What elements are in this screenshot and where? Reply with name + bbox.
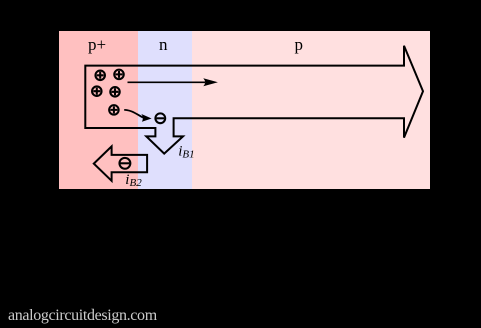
recombination curved arrow — [124, 110, 151, 122]
electron symbol ⊖ at iB1 — [155, 113, 165, 123]
watermark — [8, 307, 157, 325]
svg-text:n: n — [159, 35, 168, 54]
iB2 left arrow outline — [94, 146, 147, 180]
electron symbol ⊖ in iB2 arrow — [119, 158, 130, 169]
svg-text:p+: p+ — [88, 35, 106, 54]
hole symbol ⊕ 5 — [109, 105, 119, 115]
p+ emitter region band — [59, 31, 138, 189]
hole symbol ⊕ 2 — [114, 70, 124, 80]
semiconductor cross-section diagram — [59, 31, 430, 194]
hole symbol ⊕ 4 — [110, 87, 120, 97]
p collector region band — [192, 31, 430, 189]
hole symbol ⊕ 1 — [95, 71, 105, 81]
n base region band — [138, 31, 192, 189]
emitter current outline: box, collector arrow right, iB1 notch arrow down — [85, 46, 423, 154]
hole symbol ⊕ 3 — [92, 86, 102, 96]
hole flow arrow — [128, 78, 218, 86]
svg-text:p: p — [295, 35, 304, 54]
